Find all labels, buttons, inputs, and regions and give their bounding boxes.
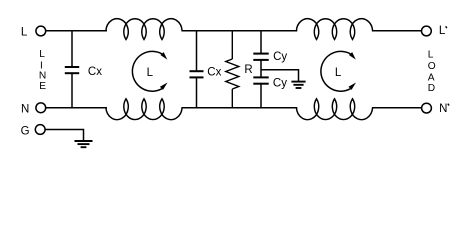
svg-text:L: L <box>39 49 45 60</box>
terminal G <box>35 125 45 135</box>
svg-text:L: L <box>428 50 434 61</box>
capacitor Cx1 top lead <box>71 31 73 67</box>
capacitor Cx2 top lead <box>196 31 198 71</box>
terminal L <box>36 26 46 36</box>
bottom rail wire (choke L1 to choke L2) <box>181 107 297 109</box>
choke L2 flux arrow <box>321 51 356 91</box>
svg-text:G: G <box>21 126 30 138</box>
capacitor Cx2 bottom lead <box>196 78 198 108</box>
tick of L' label <box>446 26 447 28</box>
svg-text:L: L <box>21 26 28 38</box>
wire G to ground <box>45 130 83 141</box>
wire Cy1 to Cy2 <box>260 61 262 77</box>
top rail wire (choke L1 to choke L2) <box>181 30 297 32</box>
choke L2 top winding <box>296 19 372 40</box>
svg-text:Cx: Cx <box>207 67 221 79</box>
terminal N <box>36 103 46 113</box>
capacitor Cy2 plates <box>253 77 268 83</box>
terminal L' <box>422 26 432 36</box>
svg-text:N: N <box>21 104 29 116</box>
svg-text:L: L <box>335 67 342 79</box>
capacitor Cx1 bottom lead <box>71 74 73 108</box>
tick of N' label <box>448 104 449 106</box>
ground (Cy midpoint) <box>291 82 305 88</box>
capacitor Cy2 bottom lead <box>260 84 262 108</box>
svg-text:D: D <box>428 83 435 94</box>
choke L1 top winding <box>106 19 182 40</box>
capacitor Cx1 plates <box>65 67 79 73</box>
capacitor Cy1 top lead <box>260 31 262 54</box>
wire choke L2 to terminal N' <box>372 107 422 109</box>
resistor R bottom lead <box>231 89 233 108</box>
svg-text:O: O <box>428 61 436 72</box>
wire choke L2 to terminal L' <box>372 30 422 32</box>
svg-text:Cy: Cy <box>273 51 287 63</box>
svg-text:L: L <box>439 25 446 37</box>
choke L1 bottom winding <box>106 99 182 120</box>
svg-text:Cx: Cx <box>88 66 102 78</box>
resistor R zigzag <box>226 59 239 89</box>
wire Cy midpoint to ground <box>261 70 299 81</box>
ground (G) <box>75 141 93 147</box>
choke L2 bottom winding <box>296 99 372 120</box>
svg-text:A: A <box>428 73 435 84</box>
choke L1 flux arrow <box>132 51 167 91</box>
capacitor Cy1 plates <box>253 54 268 60</box>
capacitor Cx2 plates <box>190 71 204 77</box>
svg-text:N: N <box>439 103 447 115</box>
wire L to choke <box>46 30 107 32</box>
svg-text:R: R <box>244 64 252 76</box>
resistor R top lead <box>231 31 233 60</box>
terminal N' <box>422 103 432 113</box>
svg-text:Cy: Cy <box>273 78 287 90</box>
wire N to choke <box>46 107 107 109</box>
svg-text:L: L <box>147 67 154 79</box>
svg-text:N: N <box>39 71 46 82</box>
svg-text:E: E <box>39 81 46 92</box>
